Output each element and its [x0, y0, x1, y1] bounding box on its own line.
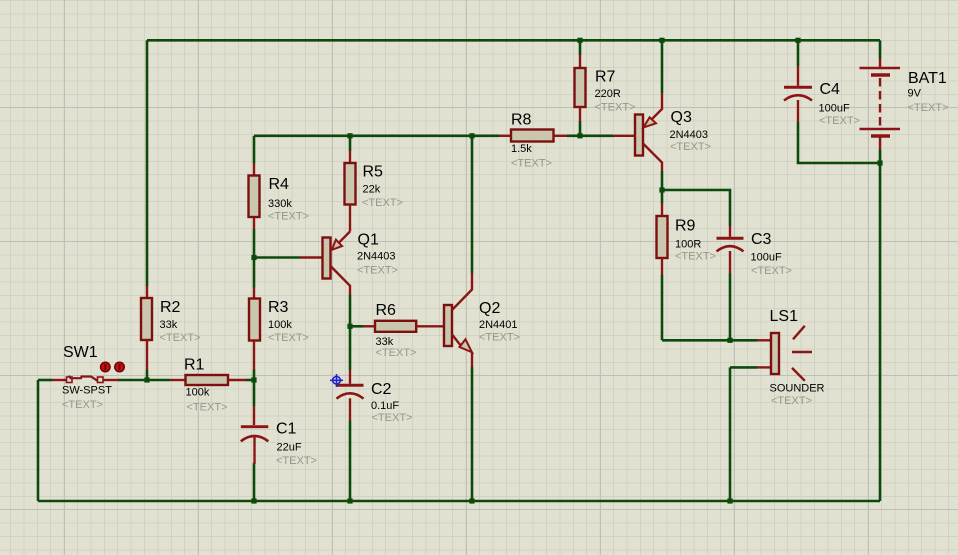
node Q2 collector junction — [469, 133, 474, 138]
wire LS1 bottom — [730, 366, 757, 369]
resistor R3 body — [249, 299, 260, 341]
capacitor C2 bottom plate — [337, 393, 364, 398]
wire Q1 collector down — [349, 295, 352, 326]
wire SW1 to R1 — [118, 379, 170, 382]
node Q2 emitter ground junction — [469, 498, 474, 503]
svg-text:Q2: Q2 — [479, 300, 500, 317]
svg-text:R1: R1 — [184, 357, 205, 374]
svg-text:22k: 22k — [363, 184, 381, 196]
svg-text:<TEXT>: <TEXT> — [670, 141, 711, 153]
svg-text:100k: 100k — [268, 319, 292, 331]
capacitor C2 top pin — [349, 370, 351, 384]
wire R4 top — [253, 136, 256, 164]
resistor R9 body — [657, 216, 668, 258]
wire R7 top — [579, 40, 582, 55]
capacitor C3 top plate — [717, 237, 744, 240]
node C2 ground junction — [347, 498, 352, 503]
switch SW1 right pin — [103, 379, 119, 381]
resistor R6 left pin — [363, 325, 375, 327]
svg-text:<TEXT>: <TEXT> — [479, 332, 520, 344]
svg-text:<TEXT>: <TEXT> — [675, 251, 716, 263]
resistor R1 left pin — [170, 379, 186, 381]
svg-text:LS1: LS1 — [770, 308, 799, 325]
wire left rail down to R2 — [146, 40, 149, 286]
transistor Q1 emitter arrow — [332, 240, 342, 250]
resistor R2 top pin — [146, 286, 148, 298]
svg-text:C3: C3 — [751, 231, 772, 248]
wire R7 bottom — [579, 121, 582, 136]
svg-text:Q1: Q1 — [358, 232, 379, 249]
node SW1-R1-R2 junction — [144, 377, 149, 382]
svg-text:33k: 33k — [160, 319, 178, 331]
capacitor C1 top plate — [241, 425, 268, 428]
battery BAT1 bottom pin — [879, 137, 881, 150]
wire Q3 emitter up — [661, 40, 664, 93]
resistor R6 body — [375, 321, 416, 332]
svg-text:9V: 9V — [908, 88, 922, 100]
node Q1 base junction — [251, 255, 256, 260]
capacitor C3 bottom pin — [729, 251, 731, 274]
resistor R1 body — [186, 375, 229, 385]
wire BAT1 top — [879, 40, 882, 59]
sounder LS1 top pin — [757, 339, 771, 341]
svg-text:330k: 330k — [268, 198, 292, 210]
resistor R4 bottom pin — [253, 217, 255, 229]
resistor R8 body — [511, 130, 554, 142]
wire top power rail — [147, 39, 880, 42]
svg-text:<TEXT>: <TEXT> — [62, 399, 103, 411]
wire Q2 collector up — [471, 136, 474, 273]
svg-text:22uF: 22uF — [277, 441, 302, 453]
node C3-LS1 junction — [727, 338, 732, 343]
svg-text:<TEXT>: <TEXT> — [372, 412, 413, 424]
resistor R5 top pin — [349, 151, 351, 163]
svg-text:100R: 100R — [675, 239, 701, 251]
svg-text:0.1uF: 0.1uF — [371, 400, 399, 412]
svg-text:SOUNDER: SOUNDER — [770, 382, 825, 394]
battery BAT1 top cell short plate — [871, 73, 890, 76]
svg-text:100uF: 100uF — [819, 103, 850, 115]
svg-text:<TEXT>: <TEXT> — [376, 347, 417, 359]
capacitor C4 top plate — [784, 86, 812, 89]
sounder LS1 body — [771, 333, 779, 374]
node Q3 collector junction — [659, 187, 664, 192]
battery BAT1 top pin — [879, 59, 881, 67]
wire R3 bottom — [253, 370, 256, 381]
wire node C to C2 — [349, 326, 352, 370]
wire R1 right — [246, 379, 254, 382]
sounder LS1 sound waves — [792, 326, 812, 381]
svg-text:R2: R2 — [160, 299, 181, 316]
resistor R7 top pin — [579, 55, 581, 68]
svg-text:SW1: SW1 — [63, 344, 98, 361]
svg-text:Q3: Q3 — [671, 109, 692, 126]
svg-text:<TEXT>: <TEXT> — [819, 115, 860, 127]
wire bottom ground rail — [38, 500, 880, 503]
wire node C to R6 — [350, 325, 363, 328]
wire Q1 base — [254, 256, 300, 259]
wire C4 top — [797, 40, 800, 66]
capacitor C2 bottom pin — [349, 398, 351, 420]
capacitor C3 bottom plate — [717, 246, 744, 251]
resistor R2 bottom pin — [146, 340, 148, 370]
wire node D to R9 — [661, 190, 664, 204]
svg-text:2N4401: 2N4401 — [479, 319, 518, 331]
resistor R4 body — [249, 176, 260, 218]
resistor R7 bottom pin — [579, 107, 581, 121]
svg-text:R4: R4 — [269, 176, 290, 193]
wire LS1 to ground rail — [729, 367, 732, 501]
svg-text:<TEXT>: <TEXT> — [771, 395, 812, 407]
capacitor C3 top pin — [729, 226, 731, 237]
svg-text:2N4403: 2N4403 — [670, 129, 709, 141]
capacitor C4 top pin — [797, 66, 799, 86]
wire R4 to node B — [253, 229, 256, 258]
svg-text:<TEXT>: <TEXT> — [357, 265, 398, 277]
resistor R4 top pin — [253, 164, 255, 176]
svg-text:<TEXT>: <TEXT> — [751, 265, 792, 277]
svg-text:SW-SPST: SW-SPST — [62, 385, 112, 397]
node R1-R3-C1 junction — [251, 377, 256, 382]
wire C2 bottom — [349, 421, 352, 502]
svg-text:<TEXT>: <TEXT> — [595, 102, 636, 114]
wire Q3 collector down — [661, 171, 664, 190]
node C1 ground junction — [251, 498, 256, 503]
svg-text:R6: R6 — [376, 302, 397, 319]
node R5 top junction — [347, 133, 352, 138]
node Q3 emitter junction — [659, 38, 664, 43]
wire R9 bottom — [661, 275, 664, 340]
resistor R8 left pin — [499, 135, 511, 137]
svg-text:R8: R8 — [511, 112, 532, 129]
transistor Q3 collector line — [643, 144, 662, 172]
transistor Q1 base bar — [323, 238, 331, 279]
wire mid rail right — [567, 135, 613, 138]
sounder LS1 bottom pin — [757, 366, 771, 368]
battery BAT1 bottom cell short plate — [871, 134, 890, 137]
resistor R1 right pin — [228, 379, 246, 381]
battery BAT1 top cell long plate — [860, 67, 901, 70]
wire C1 bottom — [253, 463, 256, 501]
svg-text:2N4403: 2N4403 — [357, 251, 396, 263]
transistor Q2 collector line — [452, 273, 472, 310]
switch SW1 left pin — [52, 379, 67, 381]
svg-text:100k: 100k — [186, 386, 210, 398]
svg-text:R5: R5 — [363, 163, 384, 180]
transistor Q2 emitter pin — [471, 352, 473, 367]
wire to C1 — [253, 380, 256, 406]
wire left edge vertical — [37, 380, 40, 501]
node BAT1 bottom junction — [877, 160, 882, 165]
transistor Q3 emitter arrow — [643, 117, 656, 127]
wire C3 bottom — [729, 274, 732, 341]
capacitor C4 bottom pin — [797, 100, 799, 122]
transistor Q2 base pin — [443, 325, 445, 327]
wire right edge vertical — [879, 163, 882, 501]
transistor Q2 emitter arrow — [460, 339, 473, 352]
svg-text:C2: C2 — [371, 381, 392, 398]
node R7 top junction — [577, 38, 582, 43]
svg-text:R9: R9 — [675, 218, 696, 235]
switch SW1 toggle marker left — [101, 362, 111, 372]
wire node D to C3 — [662, 190, 730, 226]
transistor Q2 base bar — [444, 305, 452, 346]
capacitor C1 bottom pin — [253, 437, 255, 465]
switch SW1 right contact — [98, 377, 104, 383]
resistor R2 body — [141, 298, 152, 340]
node Q1 collector junction — [347, 324, 352, 329]
battery BAT1 bottom cell long plate — [860, 128, 901, 131]
resistor R7 body — [575, 68, 586, 107]
svg-text:<TEXT>: <TEXT> — [268, 211, 309, 223]
node R7 bottom junction — [577, 133, 582, 138]
wire BAT1 bottom — [879, 150, 882, 164]
origin marker at C2 — [330, 374, 343, 387]
capacitor C1 bottom plate — [241, 436, 268, 441]
resistor R5 body — [345, 163, 356, 205]
wire C4 bottom — [798, 122, 880, 163]
svg-text:<TEXT>: <TEXT> — [187, 402, 228, 414]
svg-text:100uF: 100uF — [751, 252, 782, 264]
wire SW1 left — [38, 379, 52, 382]
svg-text:<TEXT>: <TEXT> — [362, 197, 403, 209]
resistor R8 right pin — [554, 135, 568, 137]
resistor R9 bottom pin — [661, 258, 663, 275]
switch SW1 lever — [70, 376, 98, 381]
svg-text:BAT1: BAT1 — [908, 70, 947, 87]
switch SW1 toggle marker right — [115, 362, 125, 372]
wire R2 bottom — [146, 370, 149, 380]
resistor R6 right pin — [416, 325, 444, 327]
svg-text:R7: R7 — [595, 68, 616, 85]
svg-text:C1: C1 — [276, 420, 297, 437]
node C4 top junction — [795, 38, 800, 43]
svg-text:C4: C4 — [820, 81, 841, 98]
battery BAT1 dashed link — [879, 78, 881, 126]
svg-text:1.5k: 1.5k — [511, 143, 532, 155]
svg-text:<TEXT>: <TEXT> — [160, 332, 201, 344]
wire mid rail left — [254, 135, 499, 138]
svg-text:<TEXT>: <TEXT> — [276, 455, 317, 467]
resistor R3 bottom pin — [253, 341, 255, 370]
transistor Q1 collector line — [331, 266, 351, 295]
svg-text:R3: R3 — [268, 299, 289, 316]
wire node B to R3 — [253, 258, 256, 288]
svg-text:<TEXT>: <TEXT> — [511, 158, 552, 170]
resistor R5 bottom pin — [349, 205, 351, 232]
svg-text:220R: 220R — [595, 88, 621, 100]
node LS1 ground junction — [727, 498, 732, 503]
svg-text:<TEXT>: <TEXT> — [908, 102, 949, 114]
capacitor C4 bottom plate — [784, 95, 812, 100]
svg-text:<TEXT>: <TEXT> — [268, 332, 309, 344]
transistor Q3 base bar — [635, 115, 643, 156]
transistor Q1 base pin — [300, 256, 323, 258]
resistor R3 top pin — [253, 288, 255, 299]
transistor Q2 emitter line — [452, 334, 463, 349]
wire R5 top — [349, 136, 352, 151]
transistor Q3 base pin — [613, 135, 635, 137]
wire Q2 emitter down — [471, 367, 474, 501]
transistor Q1 emitter line — [332, 232, 350, 250]
switch SW1 left contact — [67, 377, 73, 383]
transistor Q3 emitter line — [644, 93, 662, 127]
wire R9 to LS1 — [662, 339, 757, 342]
capacitor C1 top pin — [253, 406, 255, 425]
resistor R9 top pin — [661, 204, 663, 217]
capacitor C2 top plate — [337, 384, 364, 387]
